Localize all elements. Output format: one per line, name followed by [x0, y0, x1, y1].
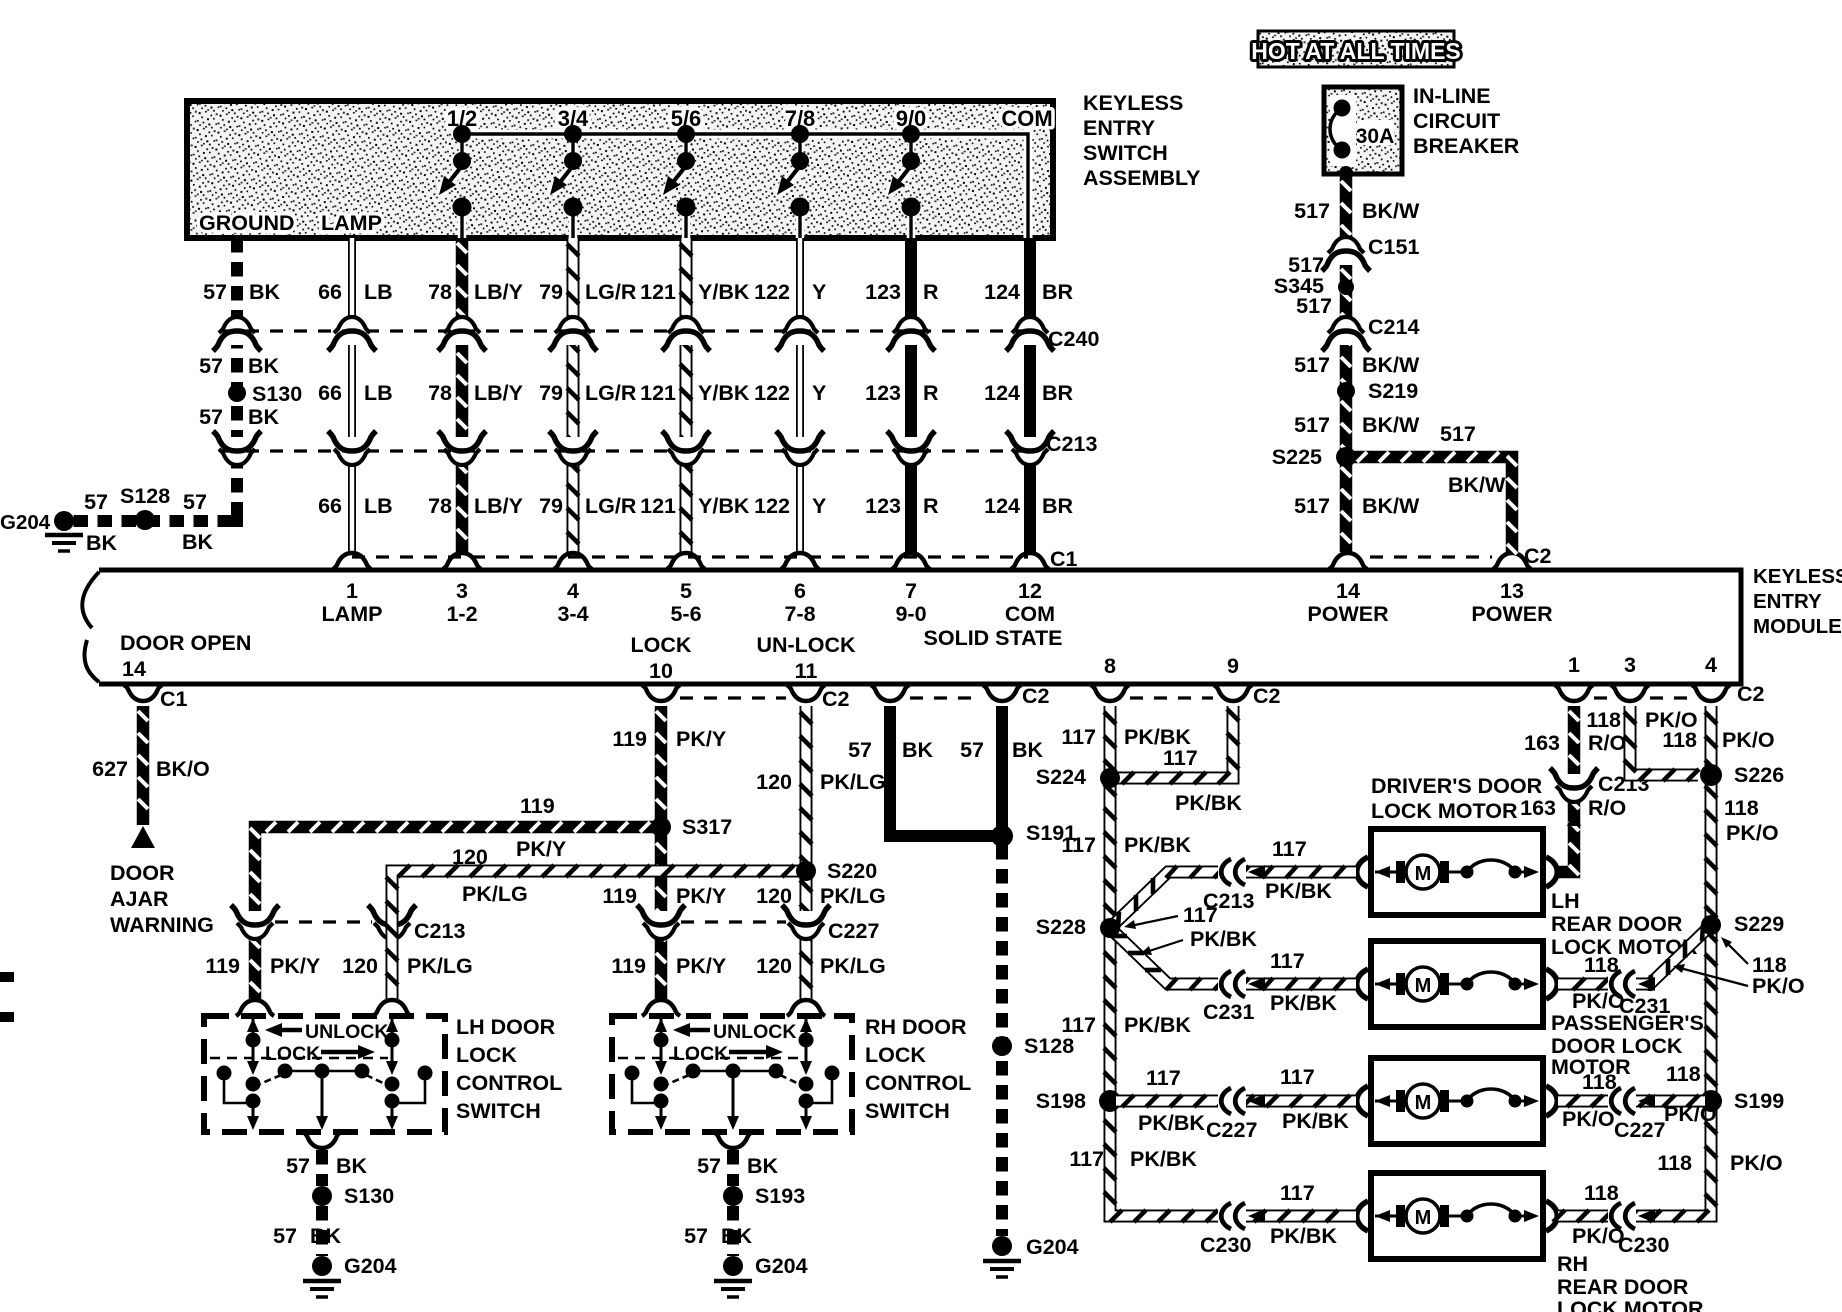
LH rear door lock motor	[1357, 941, 1558, 1027]
module bottom pin arc x1711	[1692, 685, 1730, 701]
svg-text:PK/BK: PK/BK	[1270, 991, 1337, 1015]
splice S193	[723, 1184, 805, 1208]
connector C231 LH rear motor right	[1608, 971, 1670, 1018]
label PK/BK left below passenger wire	[1138, 1111, 1205, 1135]
svg-text:57: 57	[697, 1154, 721, 1178]
connector C231 LH rear motor	[1203, 971, 1265, 1024]
svg-text:7-8: 7-8	[784, 602, 815, 626]
svg-text:57: 57	[273, 1224, 297, 1248]
wire 57 BK ground from switch assembly	[64, 238, 237, 521]
connector C240 dashed line	[222, 327, 1099, 351]
label 119 above branch	[520, 794, 555, 818]
svg-text:S199: S199	[1734, 1089, 1784, 1113]
svg-text:BK/O: BK/O	[156, 757, 210, 781]
svg-text:BK: BK	[248, 405, 280, 429]
svg-text:SWITCH: SWITCH	[1083, 141, 1168, 165]
svg-text:BK/W: BK/W	[1362, 494, 1420, 518]
svg-text:LB: LB	[364, 381, 393, 405]
splice S228	[1036, 915, 1120, 939]
label 517 BK/W below C214	[1294, 353, 1420, 377]
connector C213 halves wire 120	[368, 905, 465, 943]
label 57 BK below LH switch	[286, 1154, 367, 1178]
door ajar warning label	[110, 861, 214, 937]
svg-text:BK: BK	[86, 531, 118, 555]
label 124 BR row3	[984, 494, 1073, 518]
svg-text:PK/BK: PK/BK	[1270, 1224, 1337, 1248]
svg-text:57: 57	[199, 405, 223, 429]
svg-text:S130: S130	[252, 382, 302, 406]
wire 163 R/O from pin 1	[1558, 706, 1579, 875]
switch 1/2	[439, 106, 477, 238]
connector halves C213 wire 123	[887, 431, 935, 465]
svg-text:R/O: R/O	[1588, 731, 1626, 755]
module pin 1	[1568, 653, 1580, 677]
svg-text:123: 123	[865, 494, 901, 518]
svg-text:57: 57	[84, 490, 108, 514]
svg-text:S317: S317	[682, 815, 732, 839]
svg-text:Y: Y	[812, 280, 826, 304]
svg-text:S220: S220	[827, 859, 877, 883]
GROUND terminal label	[199, 211, 295, 235]
svg-text:S228: S228	[1036, 915, 1086, 939]
module pin arc C1 wire 124	[1011, 553, 1049, 569]
wire 122 Y	[796, 238, 804, 552]
svg-text:PK/BK: PK/BK	[1130, 1147, 1197, 1171]
svg-text:SWITCH: SWITCH	[865, 1099, 950, 1123]
connector C213 driver's motor	[1203, 859, 1265, 913]
svg-text:Y: Y	[812, 381, 826, 405]
label 66 LB row2	[318, 381, 393, 405]
label PK/O below LH rear right wire	[1572, 989, 1625, 1013]
svg-text:M: M	[1415, 863, 1432, 885]
wire 117 PK/BK to driver's motor	[1110, 866, 1356, 928]
svg-text:BK: BK	[721, 1224, 753, 1248]
connector halves C240 wire 57	[213, 317, 261, 351]
connector C2 dashed pins 8-9	[1130, 684, 1281, 708]
svg-text:57: 57	[960, 738, 984, 762]
wire 78 LB/Y	[457, 238, 467, 552]
wire 57 BK dashed to G204	[996, 845, 1008, 1236]
module pin 12 COM	[1005, 579, 1055, 626]
wire 119 PK/Y from pin 10	[656, 706, 666, 1002]
wire 57 BK to G204 LH	[316, 1206, 328, 1256]
label 57 BK row1	[203, 280, 280, 304]
module pin 8	[1104, 654, 1116, 678]
svg-text:S198: S198	[1036, 1089, 1086, 1113]
connector C230 RH rear motor right	[1608, 1203, 1669, 1257]
svg-text:G204: G204	[344, 1254, 397, 1278]
svg-text:S128: S128	[1024, 1034, 1074, 1058]
connector C2 dashed pins 14-13	[1370, 544, 1552, 568]
svg-text:BR: BR	[1042, 494, 1074, 518]
svg-text:78: 78	[428, 381, 452, 405]
svg-text:LOCK: LOCK	[265, 1043, 320, 1065]
svg-text:DOOR OPEN: DOOR OPEN	[120, 631, 251, 655]
svg-text:C230: C230	[1200, 1233, 1251, 1257]
connector halves C240 wire 123	[887, 317, 935, 351]
svg-text:UN-LOCK: UN-LOCK	[756, 633, 856, 657]
module pin 13 POWER	[1471, 553, 1553, 626]
svg-text:RH: RH	[1557, 1252, 1588, 1276]
svg-text:DRIVER'S DOOR: DRIVER'S DOOR	[1371, 774, 1543, 798]
wire 117 PK/BK branch to pin 9	[1116, 706, 1239, 784]
module pin arc C1 wire 66	[333, 553, 371, 569]
wire 123 R	[905, 238, 917, 552]
connector C151	[1322, 235, 1419, 271]
svg-text:124: 124	[984, 381, 1020, 405]
svg-text:C227: C227	[1614, 1118, 1665, 1142]
splice S191	[991, 821, 1076, 847]
svg-text:PK/LG: PK/LG	[820, 954, 886, 978]
label 117 above RH rear motor wire	[1280, 1181, 1315, 1205]
svg-text:G204: G204	[0, 511, 51, 534]
svg-text:57: 57	[183, 490, 207, 514]
switch 7/8	[777, 106, 815, 238]
svg-text:118: 118	[1586, 708, 1621, 732]
label 124 BR row2	[984, 381, 1073, 405]
svg-text:79: 79	[539, 494, 563, 518]
label 118 PK/O below S226	[1724, 796, 1779, 845]
svg-text:627: 627	[92, 757, 128, 781]
connector C1 dashed line	[352, 547, 1078, 571]
label 517 above C214	[1296, 294, 1332, 318]
wire 517 BK/W main	[1341, 176, 1351, 552]
module bottom pin arc x1630	[1611, 685, 1649, 701]
svg-text:BK/W: BK/W	[1362, 199, 1420, 223]
svg-text:S225: S225	[1272, 445, 1322, 469]
svg-text:POWER: POWER	[1307, 602, 1389, 626]
svg-text:119: 119	[520, 794, 555, 818]
connector halves C240 wire 66	[328, 317, 376, 351]
svg-text:BR: BR	[1042, 381, 1074, 405]
label 57 BK above G204 RH	[684, 1224, 752, 1248]
svg-text:122: 122	[754, 381, 790, 405]
in-line circuit breaker box	[1324, 87, 1402, 180]
svg-text:BREAKER: BREAKER	[1413, 134, 1520, 158]
svg-text:C2: C2	[1524, 544, 1552, 568]
RH door lock control switch title	[865, 1015, 971, 1123]
svg-text:C227: C227	[828, 919, 879, 943]
svg-text:PK/Y: PK/Y	[270, 954, 320, 978]
splice S199	[1700, 1089, 1784, 1113]
label PK/O below RH rear right wire	[1572, 1224, 1625, 1248]
wire 627 BK/O door open	[138, 706, 148, 825]
switch 3/4	[550, 106, 589, 238]
svg-text:KEYLESS: KEYLESS	[1083, 91, 1183, 115]
svg-text:117: 117	[1183, 903, 1218, 927]
svg-text:78: 78	[428, 494, 452, 518]
svg-text:C2: C2	[1253, 684, 1281, 708]
svg-text:120: 120	[342, 954, 378, 978]
svg-text:PK/O: PK/O	[1726, 821, 1779, 845]
connector halves C213 wire 122	[776, 431, 824, 465]
svg-text:14: 14	[122, 657, 146, 681]
svg-text:517: 517	[1294, 353, 1330, 377]
svg-text:117: 117	[1280, 1181, 1315, 1205]
label 119 PK/Y below C213	[205, 954, 320, 978]
splice S128 left	[120, 484, 170, 530]
label 66 LB row3	[318, 494, 393, 518]
svg-text:BK/W: BK/W	[1362, 413, 1420, 437]
svg-text:5: 5	[680, 579, 692, 603]
connector arc below LH switch	[303, 1132, 341, 1148]
svg-text:PK/BK: PK/BK	[1124, 1013, 1191, 1037]
module pin 3 1-2	[446, 579, 477, 626]
label 79 LG/R row3	[539, 494, 637, 518]
svg-text:SWITCH: SWITCH	[456, 1099, 541, 1123]
svg-text:ASSEMBLY: ASSEMBLY	[1083, 166, 1200, 190]
label 124 BR row1	[984, 280, 1073, 304]
svg-text:121: 121	[640, 494, 676, 518]
label 57 BK above G204 LH	[273, 1224, 341, 1248]
svg-text:57: 57	[199, 354, 223, 378]
module pin 3	[1624, 653, 1636, 677]
connector halves C213 wire 121	[662, 431, 710, 465]
label PK/BK below RH rear motor wire	[1270, 1224, 1337, 1248]
module pin arc C1 wire 122	[781, 553, 819, 569]
splice S130 LH	[312, 1184, 394, 1208]
label 123 R row1	[865, 280, 939, 304]
svg-text:REAR DOOR: REAR DOOR	[1551, 912, 1683, 936]
svg-text:120: 120	[756, 954, 792, 978]
svg-text:Y/BK: Y/BK	[698, 494, 750, 518]
label 118 PK/O pin 3	[1586, 708, 1697, 732]
svg-text:LOCK: LOCK	[456, 1043, 517, 1067]
wire 120 PK/LG branch to LH switch	[386, 865, 800, 1002]
svg-text:117: 117	[1061, 725, 1096, 749]
svg-text:118: 118	[1662, 728, 1697, 752]
svg-text:1: 1	[1568, 653, 1580, 677]
svg-text:PK/Y: PK/Y	[676, 954, 726, 978]
connector arc above RH switch wire 120	[787, 1000, 825, 1016]
svg-text:C2: C2	[822, 687, 850, 711]
svg-text:C231: C231	[1619, 994, 1670, 1018]
label 117 above LH rear motor wire	[1270, 949, 1305, 973]
svg-text:R: R	[923, 494, 939, 518]
splice S229	[1701, 912, 1784, 936]
label 120 above branch	[452, 845, 488, 869]
svg-text:LB: LB	[364, 280, 393, 304]
svg-text:517: 517	[1294, 199, 1330, 223]
svg-text:C227: C227	[1206, 1118, 1257, 1142]
splice S198	[1036, 1089, 1121, 1113]
label 78 LB/Y row2	[428, 381, 523, 405]
svg-text:123: 123	[865, 381, 901, 405]
label PK/BK right below passenger wire	[1282, 1109, 1349, 1133]
svg-text:PK/BK: PK/BK	[1124, 833, 1191, 857]
module pin arc C1 wire 78	[443, 553, 481, 569]
svg-text:Y/BK: Y/BK	[698, 280, 750, 304]
svg-text:C2: C2	[1022, 684, 1050, 708]
svg-text:118: 118	[1584, 1181, 1619, 1205]
svg-text:1-2: 1-2	[446, 602, 477, 626]
label 57 BK above S130	[199, 354, 279, 378]
svg-text:S219: S219	[1368, 379, 1418, 403]
label 163 R/O below C213	[1520, 796, 1626, 820]
svg-text:10: 10	[649, 659, 673, 683]
svg-text:517: 517	[1440, 422, 1476, 446]
label 119 PK/Y below pin 10	[612, 727, 726, 751]
module bottom pin arc x1233	[1214, 685, 1252, 701]
svg-text:3-4: 3-4	[557, 602, 588, 626]
label PK/O left below passenger right wire	[1562, 1107, 1615, 1131]
RH door lock control switch box	[612, 1016, 852, 1132]
LH door lock control switch box	[204, 1016, 445, 1132]
svg-text:30A: 30A	[1356, 125, 1395, 148]
svg-text:CONTROL: CONTROL	[456, 1071, 562, 1095]
svg-text:BK: BK	[747, 1154, 779, 1178]
svg-text:LOCK: LOCK	[631, 633, 692, 657]
label PK/Y below branch	[516, 837, 566, 861]
module bottom pin arc x1110	[1091, 685, 1129, 701]
connector C2 dashed pins 1-3-4	[1594, 682, 1765, 706]
svg-text:LB/Y: LB/Y	[474, 381, 523, 405]
label PK/BK below branch	[1175, 791, 1242, 815]
label 57 left of S128	[84, 490, 108, 514]
svg-text:117: 117	[1163, 746, 1198, 770]
door ajar warning off-page triangle	[131, 826, 155, 848]
wire 124 BR	[1024, 238, 1036, 552]
svg-text:4: 4	[1705, 653, 1717, 677]
svg-text:R: R	[923, 280, 939, 304]
svg-text:517: 517	[1294, 413, 1330, 437]
svg-text:UNLOCK: UNLOCK	[305, 1021, 388, 1043]
svg-text:66: 66	[318, 280, 342, 304]
keyless entry switch assembly box	[187, 101, 1053, 238]
svg-text:PK/Y: PK/Y	[676, 727, 726, 751]
svg-text:AJAR: AJAR	[110, 887, 169, 911]
svg-text:517: 517	[1296, 294, 1332, 318]
label 117 above branch	[1163, 746, 1198, 770]
svg-text:ENTRY: ENTRY	[1753, 590, 1822, 613]
ground G204 LH switch	[303, 1254, 397, 1297]
label 122 Y row1	[754, 280, 826, 304]
svg-text:13: 13	[1500, 579, 1524, 603]
svg-text:163: 163	[1524, 731, 1560, 755]
label 117 PK/BK below pin 8	[1061, 725, 1191, 749]
wire 517 BK/W branch to pin 13	[1352, 452, 1517, 554]
svg-text:R: R	[923, 381, 939, 405]
connector C213 dashed line	[222, 432, 1097, 456]
connector C230 RH rear motor left	[1200, 1203, 1265, 1257]
svg-text:LH DOOR: LH DOOR	[456, 1015, 556, 1039]
svg-text:PK/LG: PK/LG	[820, 770, 886, 794]
svg-text:117: 117	[1270, 949, 1305, 973]
module pin 6 7-8	[784, 579, 815, 626]
wire 118 PK/O to passenger motor	[1558, 1095, 1705, 1107]
label 122 Y row2	[754, 381, 826, 405]
label 57 BK left solid state	[848, 738, 933, 762]
connector halves C240 wire 79	[549, 317, 597, 351]
label 66 LB row1	[318, 280, 393, 304]
svg-text:RH DOOR: RH DOOR	[865, 1015, 967, 1039]
hot at all times banner	[1251, 31, 1461, 67]
label 121 Y/BK row3	[640, 494, 750, 518]
svg-text:C230: C230	[1618, 1233, 1669, 1257]
label 121 Y/BK row2	[640, 381, 750, 405]
keyless entry module box	[82, 570, 1741, 684]
wire 117 PK/BK main from pin 8	[1104, 706, 1356, 1222]
svg-text:CIRCUIT: CIRCUIT	[1413, 109, 1500, 133]
svg-text:R/O: R/O	[1588, 796, 1626, 820]
wire 118 PK/O from pin 4	[1705, 706, 1717, 772]
svg-text:PK/BK: PK/BK	[1138, 1111, 1205, 1135]
module pin 14 POWER	[1307, 553, 1389, 626]
svg-text:S193: S193	[755, 1184, 805, 1208]
svg-text:Y/BK: Y/BK	[698, 381, 750, 405]
wire 57 BK to G204 RH	[727, 1206, 739, 1256]
svg-text:BK: BK	[248, 354, 280, 378]
splice S345	[1274, 274, 1354, 298]
svg-text:PK/LG: PK/LG	[407, 954, 473, 978]
label PK/O right of S199 wire	[1664, 1102, 1717, 1126]
svg-text:PK/LG: PK/LG	[820, 884, 886, 908]
connector halves C240 wire 124	[1006, 317, 1054, 351]
svg-text:14: 14	[1336, 579, 1360, 603]
wire 118 PK/O main	[1553, 780, 1717, 1222]
svg-text:LOCK MOTOR: LOCK MOTOR	[1557, 1297, 1704, 1312]
svg-text:123: 123	[865, 280, 901, 304]
connector halves C213 wire 57	[213, 431, 261, 465]
svg-text:UNLOCK: UNLOCK	[713, 1021, 796, 1043]
svg-text:LB: LB	[364, 494, 393, 518]
svg-text:BK/W: BK/W	[1448, 473, 1506, 497]
svg-text:LOCK MOTOR: LOCK MOTOR	[1371, 799, 1518, 823]
module bottom pin arc x890	[871, 685, 909, 701]
label 57 BK right solid state	[960, 738, 1043, 762]
switch bus wire COM	[462, 134, 1028, 238]
label 123 R row2	[865, 381, 939, 405]
label 79 LG/R row2	[539, 381, 637, 405]
connector arc below RH switch	[714, 1132, 752, 1148]
svg-text:117: 117	[1061, 833, 1096, 857]
connector C214	[1322, 315, 1419, 351]
svg-text:LB/Y: LB/Y	[474, 494, 523, 518]
svg-text:119: 119	[602, 884, 637, 908]
splice S128 right	[992, 1034, 1074, 1058]
label 119 PK/Y below C227	[611, 954, 726, 978]
svg-text:G204: G204	[1026, 1235, 1079, 1259]
wire 57 BK from solid state pin right	[996, 706, 1008, 840]
splice S226	[1700, 763, 1784, 787]
svg-text:C214: C214	[1368, 315, 1419, 339]
svg-text:6: 6	[794, 579, 806, 603]
connector C1 label pin 14	[160, 687, 188, 711]
module pin 11 UN-LOCK	[756, 633, 856, 683]
svg-text:BK: BK	[182, 530, 214, 554]
label 122 Y row3	[754, 494, 826, 518]
svg-text:3: 3	[1624, 653, 1636, 677]
label PK/BK below LH rear motor wire	[1270, 991, 1337, 1015]
module pin 4 3-4	[557, 579, 588, 626]
svg-text:PK/BK: PK/BK	[1265, 879, 1332, 903]
connector C213 halves wire 119	[231, 905, 279, 939]
callout arrows S228	[1124, 903, 1257, 955]
svg-text:C1: C1	[160, 687, 188, 711]
svg-text:C151: C151	[1368, 235, 1419, 259]
connector C227 dashed line	[681, 920, 786, 923]
label 57 BK below RH switch	[697, 1154, 778, 1178]
wire 117 PK/BK to passenger motor	[1116, 1095, 1356, 1107]
svg-text:ENTRY: ENTRY	[1083, 116, 1155, 140]
switch 9/0	[888, 106, 926, 238]
svg-text:LG/R: LG/R	[585, 381, 637, 405]
svg-text:118: 118	[1666, 1062, 1701, 1086]
wire 117 PK/BK to LH rear motor	[1110, 928, 1356, 990]
label 117 PK/BK above S228	[1061, 833, 1191, 857]
svg-text:121: 121	[640, 280, 676, 304]
module bottom pin arc x1002	[983, 685, 1021, 701]
